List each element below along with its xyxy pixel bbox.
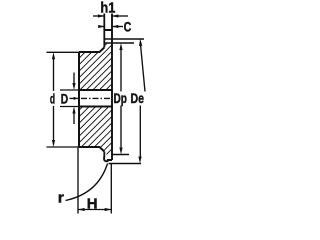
D dimension lower arrow (points up to bore bottom) bbox=[73, 113, 75, 124]
hub bottom edge and chamfer bbox=[79, 147, 104, 152]
svg-text:h1: h1 bbox=[100, 0, 115, 17]
D dimension upper arrow (points down to bore top) bbox=[73, 73, 75, 84]
svg-text:D: D bbox=[61, 90, 68, 106]
hatching top tooth root bbox=[104, 43, 112, 53]
H dimension line with outward arrows bbox=[78, 209, 111, 211]
bore top extension line bbox=[60, 89, 79, 91]
hatching hub upper bbox=[79, 52, 112, 90]
dimension h1 right arrow bbox=[112, 15, 128, 17]
Dp bottom reference tick bbox=[112, 154, 129, 156]
De top reference line bbox=[104, 38, 144, 40]
bottom tooth bottom edge bbox=[107, 159, 112, 161]
dimension line Dp lower bbox=[120, 106, 122, 149]
svg-text:r: r bbox=[58, 190, 64, 207]
H right extension line bbox=[110, 164, 112, 214]
dimension line Dp upper bbox=[120, 50, 122, 92]
Dp top reference line bbox=[104, 42, 134, 44]
d dimension bottom tick bbox=[47, 146, 80, 148]
dimension C left arrow bbox=[99, 26, 105, 28]
r leader curve bbox=[66, 164, 108, 201]
d dimension line upper with up arrow bbox=[53, 59, 55, 91]
svg-text:C: C bbox=[124, 19, 132, 35]
dimension h1 left arrow bbox=[93, 15, 104, 17]
hub top edge and chamfer bbox=[79, 48, 104, 53]
H left extension line bbox=[77, 148, 79, 214]
hatching hub lower bbox=[79, 107, 112, 148]
dimension line De upper (slightly skewed like scan) bbox=[141, 46, 145, 92]
hatching bottom tooth root bbox=[104, 147, 112, 155]
bore bottom extension line bbox=[60, 106, 79, 108]
tooth top edge bbox=[104, 29, 112, 31]
svg-text:Dp: Dp bbox=[114, 90, 128, 106]
De bottom reference line bbox=[109, 163, 142, 165]
bore top edge bbox=[79, 89, 112, 91]
bore bottom edge bbox=[79, 106, 112, 108]
svg-text:De: De bbox=[131, 90, 145, 106]
d dimension top tick bbox=[47, 51, 80, 53]
centerline axis dash-dot bbox=[70, 97, 112, 99]
svg-text:H: H bbox=[87, 196, 98, 213]
plate right face bbox=[111, 14, 113, 161]
svg-text:d: d bbox=[50, 90, 55, 106]
bottom tooth left edge bbox=[103, 152, 105, 158]
d dimension line lower with down arrow bbox=[53, 106, 55, 141]
tooth left edge top bbox=[103, 14, 105, 48]
dimension C right arrow bbox=[112, 26, 123, 28]
bottom tooth fillet r bbox=[104, 157, 108, 161]
dimension line De lower bbox=[139, 106, 141, 158]
centerline arrowhead at hub face bbox=[74, 97, 79, 100]
body outline left edge bbox=[78, 52, 80, 147]
